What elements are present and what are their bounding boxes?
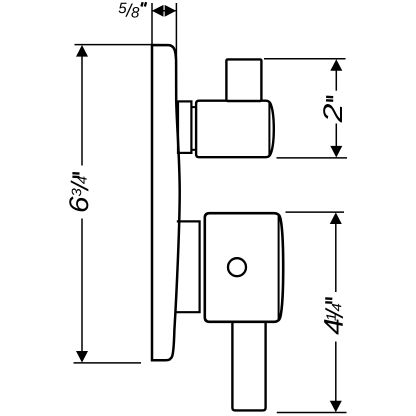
escutcheon plate side profile [152, 45, 180, 360]
dim 4-1/4 down arrowhead [330, 401, 342, 413]
lower neck [175, 221, 200, 312]
lower valve body [205, 213, 283, 322]
inch marks for 2in label [326, 97, 333, 101]
button circle [228, 258, 246, 276]
lower body cylinder face edge [278, 216, 280, 319]
upper connector tick bottom [192, 149, 197, 151]
inch marks for 6-3/4 label [72, 173, 79, 177]
dim 5/8 right arrowhead [165, 5, 176, 17]
dim 5/8 left arrowhead [152, 5, 164, 17]
dim 6-3/4 dimension line upper [81, 51, 83, 166]
upper valve body [196, 101, 274, 158]
dim 5/8 dimension line [153, 10, 176, 12]
dim 6-3/4 up arrowhead [76, 45, 88, 57]
dim 4-1/4 bottom extension line [277, 412, 347, 414]
label 5/8 inch [119, 3, 140, 18]
dim 4-1/4 up arrowhead [330, 212, 342, 224]
lever stem [232, 321, 265, 411]
upper sleeve [178, 101, 191, 152]
dim 5/8 right extension line [175, 3, 177, 60]
upper body cylinder face edge [268, 103, 270, 156]
inch marks for 5/8 label [141, 2, 146, 6]
dim 4-1/4 top extension line [286, 211, 345, 213]
inch marks for 4-1/4 label [325, 298, 332, 302]
dim 2in bottom extension line [277, 157, 348, 159]
temperature knob [226, 59, 261, 101]
dim 2in up arrowhead [330, 59, 342, 71]
dim 6-3/4 top extension line [75, 44, 153, 46]
label 4-1/4 inch [324, 304, 343, 335]
dim 4-1/4 dimension line lower [335, 342, 337, 407]
dim 5/8 left extension line [151, 3, 153, 44]
upper connector tick top [192, 106, 197, 108]
dim 2in top extension line [264, 58, 346, 60]
dim 6-3/4 dimension line lower [81, 219, 83, 358]
label 2 inch [323, 104, 342, 122]
dim 6-3/4 down arrowhead [76, 351, 88, 363]
label 6-3/4 inch [69, 176, 88, 211]
dim 2in dimension line upper [335, 65, 337, 91]
dim 4-1/4 dimension line upper [335, 218, 337, 292]
dim 2in dimension line lower [335, 124, 337, 153]
dim 6-3/4 bottom extension line [74, 362, 142, 364]
dim 2in down arrowhead [330, 146, 342, 158]
